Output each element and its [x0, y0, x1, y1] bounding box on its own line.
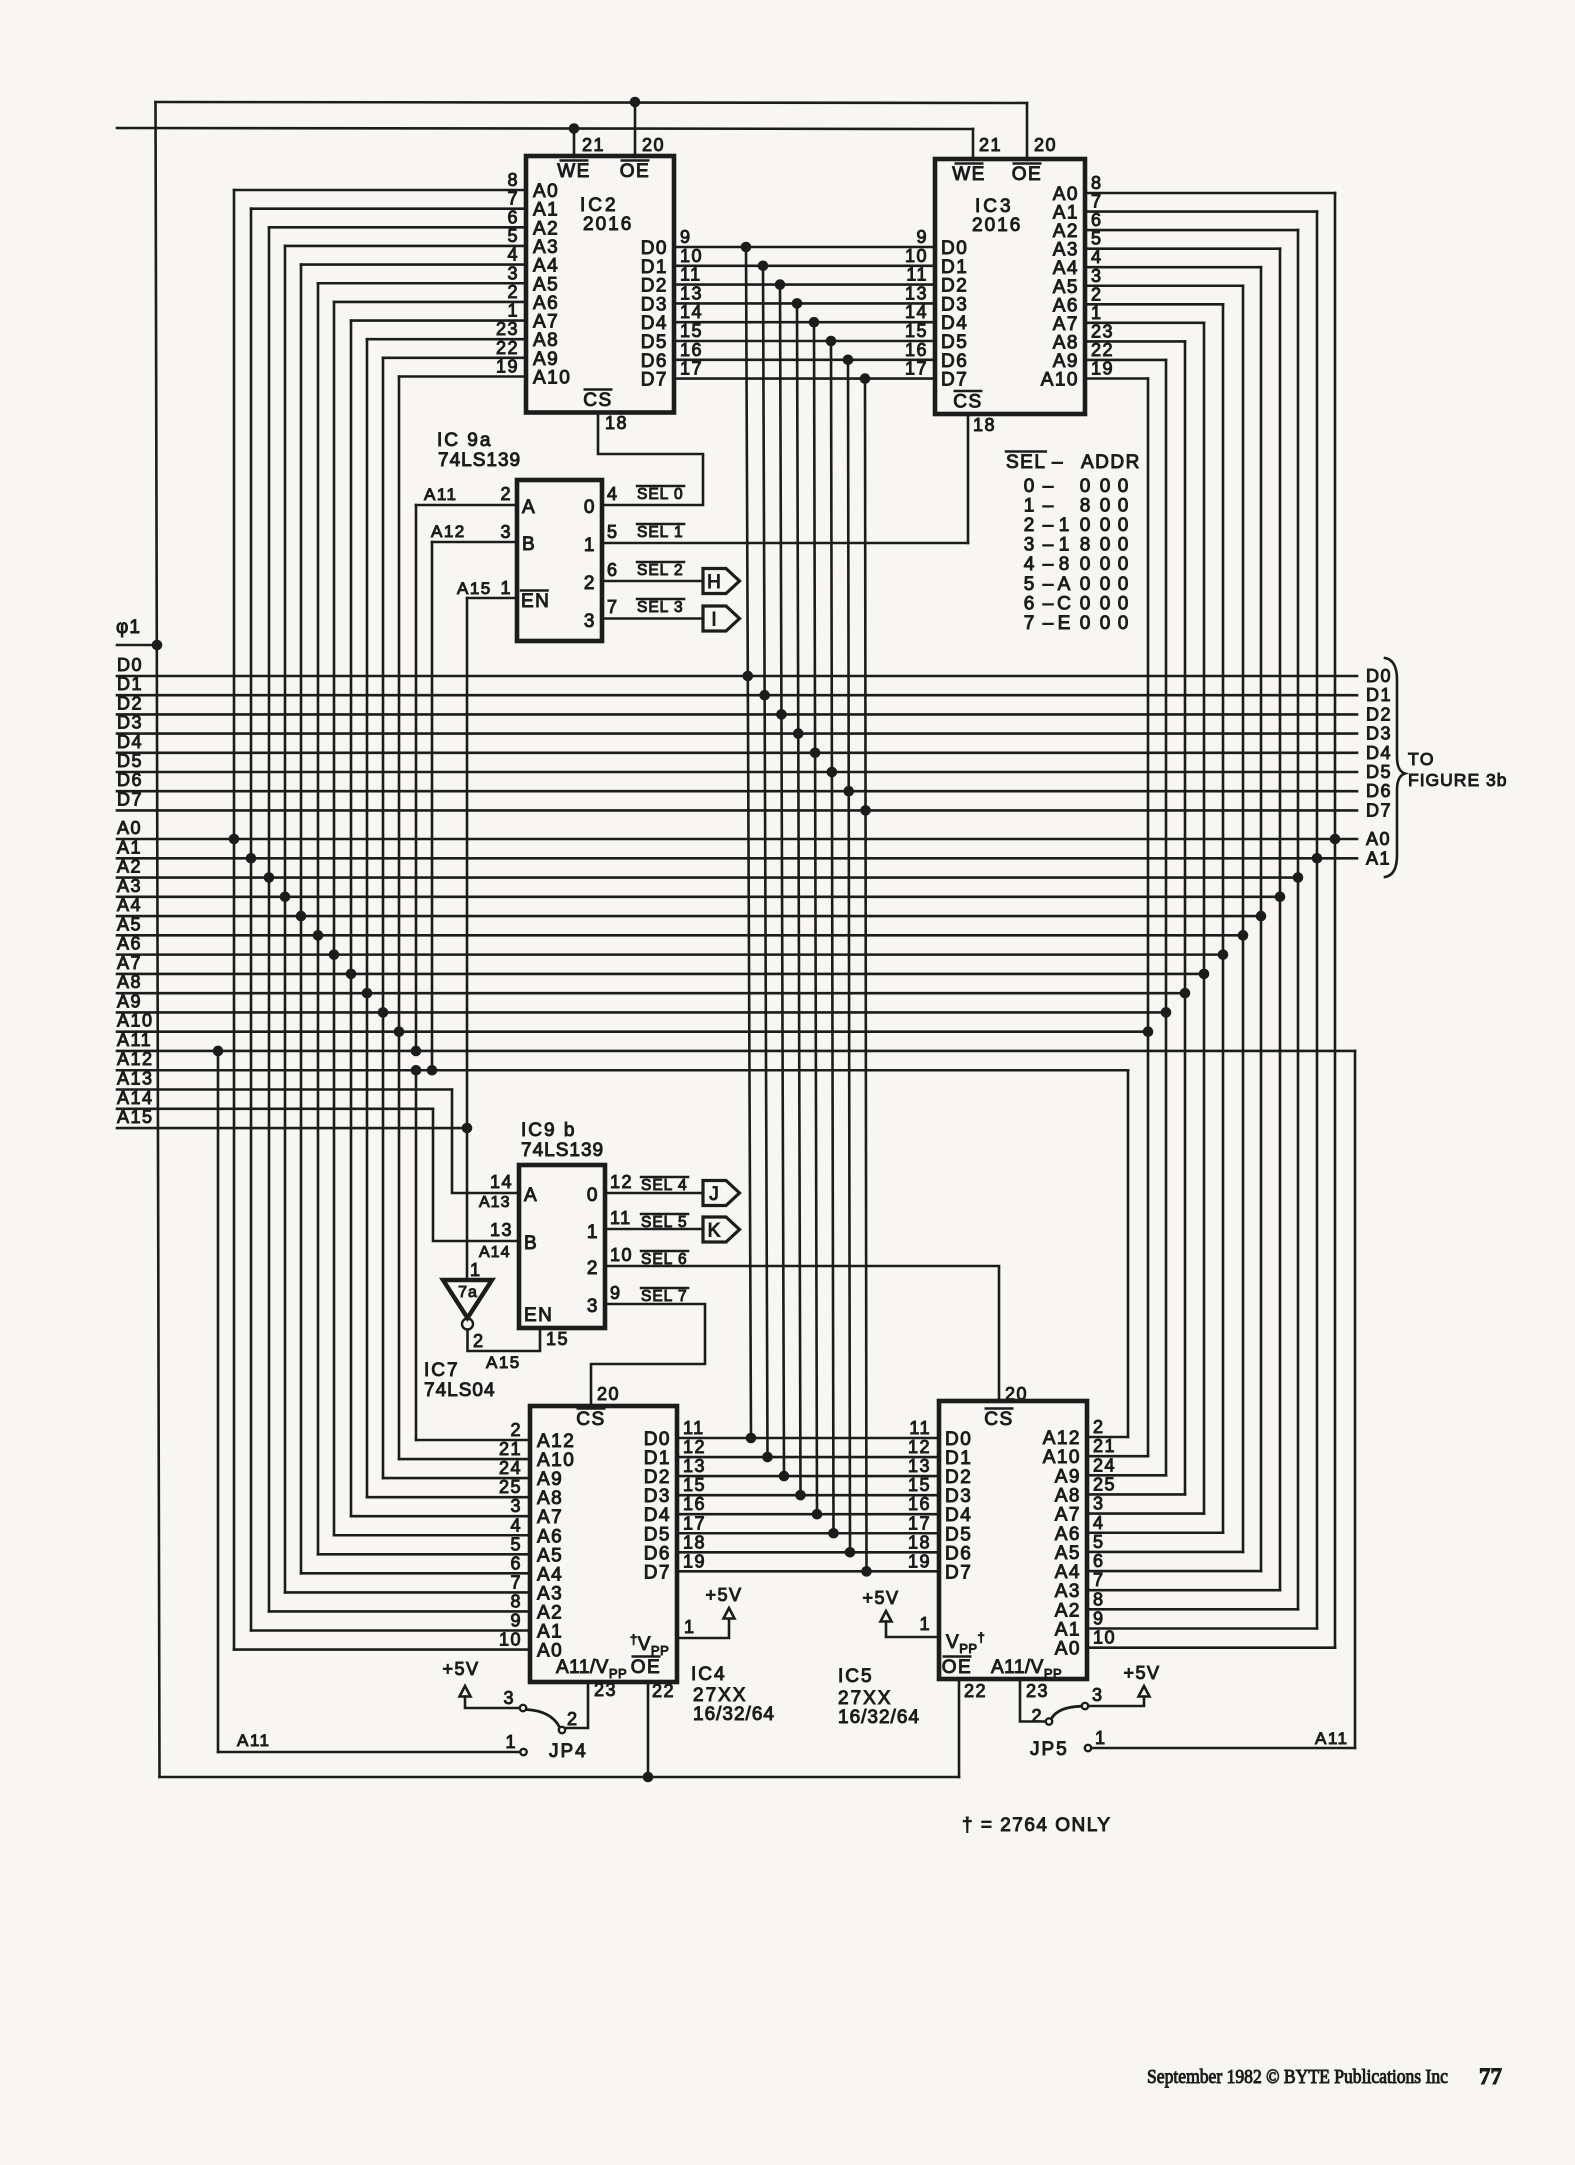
- wire IC4 A12 pin stub: [416, 1439, 530, 1442]
- svg-text:4: 4: [1093, 1513, 1105, 1533]
- junction D3 lower: [795, 1490, 806, 1501]
- svg-text:8: 8: [507, 170, 519, 190]
- wire A10 vertical IC2 to IC4: [398, 377, 401, 1460]
- svg-text:12: 12: [908, 1437, 931, 1457]
- wire D4 vertical: [814, 322, 817, 1514]
- svg-text:D3: D3: [644, 1486, 671, 1507]
- svg-text:CS: CS: [576, 1409, 605, 1430]
- junction A7 bus left: [346, 969, 357, 980]
- brace to figure 3b: [1385, 658, 1405, 877]
- svg-text:D2: D2: [1366, 704, 1392, 724]
- junction A0 bus right: [1330, 834, 1341, 845]
- wire D2 between IC2 and IC3: [674, 283, 935, 286]
- wire A15 vertical through A15 bus to inverter IC7a input: [466, 598, 469, 1280]
- wire IC5 A4 pin stub: [1087, 1570, 1261, 1573]
- svg-text:18: 18: [683, 1532, 706, 1552]
- wire IC2 A10 pin stub: [399, 375, 526, 378]
- net SEL4 wire to flag J: [605, 1192, 703, 1195]
- wire D7 between IC4 and IC5: [677, 1570, 939, 1573]
- svg-text:0: 0: [1100, 515, 1111, 536]
- svg-text:14: 14: [905, 302, 928, 322]
- svg-text:3: 3: [587, 1296, 599, 1317]
- bus D7 horizontal: [117, 809, 1357, 812]
- junction A12 bus / IC4 A12: [411, 1065, 422, 1076]
- junction D1 lower: [762, 1452, 773, 1463]
- svg-text:A10: A10: [117, 1011, 154, 1031]
- svg-text:A: A: [522, 497, 536, 518]
- wire D7 between IC2 and IC3: [674, 377, 935, 380]
- svg-text:27XX: 27XX: [838, 1688, 892, 1709]
- svg-text:22: 22: [1091, 340, 1114, 360]
- svg-text:+5V: +5V: [705, 1585, 742, 1605]
- svg-text:D5: D5: [644, 1524, 671, 1545]
- junction D4 lower: [812, 1509, 823, 1520]
- junction D2 bus: [776, 709, 787, 720]
- wire IC2 A8 pin stub: [367, 338, 526, 341]
- svg-text:9: 9: [1093, 1609, 1105, 1629]
- svg-text:OE: OE: [631, 1657, 661, 1678]
- svg-text:3: 3: [500, 522, 512, 542]
- bus A14 horizontal: [117, 1107, 433, 1110]
- svg-text:0: 0: [1080, 515, 1091, 536]
- svg-text:D0: D0: [945, 1429, 972, 1450]
- junction A6 bus left: [329, 949, 340, 960]
- svg-text:1: 1: [587, 1222, 599, 1243]
- bus A1 horizontal: [117, 857, 1357, 860]
- svg-text:A: A: [524, 1185, 538, 1206]
- svg-text:A11: A11: [1315, 1729, 1349, 1748]
- svg-text:17: 17: [908, 1513, 931, 1533]
- svg-text:I: I: [711, 610, 716, 631]
- svg-text:19: 19: [908, 1551, 931, 1571]
- bus A9 horizontal: [117, 1011, 1166, 1014]
- junction A8 bus left: [362, 988, 373, 999]
- svg-text:A1: A1: [537, 1622, 563, 1643]
- junction A7 bus right: [1199, 969, 1210, 980]
- svg-text:D7: D7: [641, 370, 668, 391]
- svg-text:A15: A15: [117, 1107, 154, 1127]
- junction A1 bus left: [246, 853, 257, 864]
- svg-text:D4: D4: [1366, 743, 1392, 763]
- wire A0 vertical IC3 to IC5: [1334, 193, 1337, 1648]
- wire D6 between IC2 and IC3: [674, 358, 935, 361]
- wire A8 vertical IC2 to IC4: [366, 339, 369, 1497]
- wire OE/phi1 top rail: [156, 102, 1028, 103]
- junction A11 bus / JP4: [213, 1046, 224, 1057]
- svg-text:17: 17: [905, 359, 928, 379]
- svg-text:A8: A8: [1055, 1485, 1081, 1506]
- svg-text:23: 23: [594, 1680, 617, 1700]
- svg-text:6: 6: [607, 560, 619, 580]
- svg-text:2: 2: [473, 1331, 485, 1351]
- svg-text:EN: EN: [524, 1305, 553, 1326]
- svg-text:OE: OE: [620, 161, 650, 182]
- svg-text:0: 0: [1024, 476, 1035, 497]
- svg-text:16: 16: [905, 340, 928, 360]
- svg-text:2: 2: [584, 573, 596, 594]
- wire A0 vertical IC2 to IC4: [233, 190, 236, 1650]
- wire IC2 OE stub pin 20: [634, 102, 637, 157]
- svg-text:19: 19: [1091, 359, 1114, 379]
- svg-text:15: 15: [908, 1475, 931, 1495]
- junction D3 upper: [792, 298, 803, 309]
- svg-text:77: 77: [1479, 2064, 1502, 2089]
- svg-text:1: 1: [1059, 535, 1070, 556]
- wire D1 vertical: [763, 266, 768, 1457]
- connector flag I: [703, 606, 740, 631]
- svg-text:0: 0: [587, 1185, 599, 1206]
- svg-text:6: 6: [1091, 210, 1103, 230]
- svg-text:D7: D7: [644, 1562, 671, 1583]
- svg-text:15: 15: [683, 1475, 706, 1495]
- svg-text:3: 3: [503, 1688, 515, 1708]
- svg-text:2: 2: [1031, 1706, 1043, 1726]
- svg-text:20: 20: [1005, 1384, 1028, 1404]
- junction A3 bus left: [280, 892, 291, 903]
- svg-text:24: 24: [499, 1458, 522, 1478]
- wire A5 vertical IC2 to IC4: [317, 283, 320, 1554]
- net SEL5 wire to flag K: [605, 1228, 703, 1231]
- svg-text:A0: A0: [1366, 829, 1391, 849]
- svg-text:21: 21: [979, 135, 1002, 155]
- junction D3 bus: [793, 728, 804, 739]
- wire IC5 A6 pin stub: [1087, 1531, 1223, 1534]
- wire A12 to IC9a input B: [432, 541, 517, 544]
- junction A4 bus left: [296, 911, 307, 922]
- svg-text:13: 13: [905, 283, 928, 303]
- EPROM IC5 27XX body: [939, 1401, 1087, 1679]
- junction D6 lower: [845, 1547, 856, 1558]
- wire IC4 A3 pin stub: [285, 1591, 530, 1594]
- svg-text:16/32/64: 16/32/64: [838, 1707, 920, 1728]
- bus D5 horizontal: [117, 771, 1357, 774]
- wire IC3 A0 pin stub: [1085, 192, 1335, 195]
- svg-text:A10: A10: [537, 1450, 575, 1471]
- wire IC4 A0 pin stub: [234, 1648, 530, 1651]
- svg-text:5: 5: [1024, 574, 1035, 595]
- svg-text:19: 19: [683, 1551, 706, 1571]
- wire D3 between IC4 and IC5: [677, 1494, 939, 1497]
- wire A12 vertical from IC9a-B to A12 bus: [431, 542, 434, 1070]
- svg-text:1: 1: [684, 1617, 696, 1637]
- svg-text:D6: D6: [117, 770, 143, 790]
- junction A9 bus left: [378, 1007, 389, 1018]
- svg-text:C: C: [1057, 593, 1071, 614]
- svg-text:0: 0: [1118, 593, 1129, 614]
- svg-text:20: 20: [597, 1384, 620, 1404]
- wire IC2 A4 pin stub: [301, 263, 526, 266]
- svg-text:A10: A10: [533, 368, 571, 389]
- svg-text:A6: A6: [537, 1526, 563, 1547]
- svg-text:16/32/64: 16/32/64: [693, 1704, 775, 1725]
- wire phi1 left vertical rail: [156, 102, 160, 1777]
- svg-text:20: 20: [1034, 135, 1057, 155]
- svg-text:–: –: [1043, 574, 1054, 595]
- svg-text:A15: A15: [457, 579, 492, 598]
- wire IC5 OE pin 22 to OE rail: [958, 1679, 961, 1777]
- junction D5 upper: [826, 336, 837, 347]
- svg-text:8: 8: [510, 1591, 522, 1611]
- svg-text:–: –: [1052, 452, 1064, 473]
- IC5 Vpp pin 1 to +5V: [886, 1622, 939, 1638]
- junction D5 bus: [827, 767, 838, 778]
- svg-text:OE: OE: [942, 1657, 972, 1678]
- wire A1 vertical IC2 to IC4: [250, 209, 253, 1631]
- svg-text:A5: A5: [117, 914, 142, 934]
- svg-text:2: 2: [587, 1258, 599, 1279]
- wire IC2 A9 pin stub: [383, 357, 526, 360]
- wire D2 vertical: [780, 285, 784, 1477]
- wire A9 vertical IC2 to IC4: [382, 358, 385, 1478]
- junction A10 bus right: [1143, 1026, 1154, 1037]
- bus D4 horizontal: [117, 751, 1357, 754]
- wire IC4 pin 23 to JP4 pin 2: [566, 1682, 589, 1728]
- svg-text:SEL 0: SEL 0: [637, 486, 684, 503]
- svg-text:A1: A1: [117, 837, 142, 857]
- svg-text:18: 18: [973, 415, 996, 435]
- svg-text:September 1982 © BYTE Publicat: September 1982 © BYTE Publications Inc: [1147, 2066, 1448, 2088]
- svg-text:A8: A8: [537, 1488, 563, 1509]
- wire IC4 A9 pin stub: [383, 1477, 530, 1480]
- svg-text:20: 20: [642, 135, 665, 155]
- svg-text:H: H: [707, 572, 721, 593]
- svg-text:–: –: [1043, 496, 1054, 517]
- svg-text:D2: D2: [117, 693, 143, 713]
- bus D6 horizontal: [117, 790, 1357, 793]
- svg-text:A7: A7: [117, 953, 142, 973]
- svg-text:2: 2: [507, 282, 519, 302]
- bus D3 horizontal: [117, 732, 1357, 735]
- wire A6 vertical IC3 to IC5: [1222, 304, 1225, 1532]
- svg-text:SEL 4: SEL 4: [641, 1177, 688, 1194]
- svg-text:JP4: JP4: [549, 1741, 588, 1762]
- svg-text:WE: WE: [557, 161, 591, 182]
- svg-text:A9: A9: [537, 1469, 563, 1490]
- svg-text:5: 5: [607, 522, 619, 542]
- wire +5V to JP4 pin 3: [465, 1697, 520, 1709]
- junction IC4 OE / OE bottom rail: [643, 1772, 654, 1783]
- bus A5 horizontal: [117, 934, 1243, 937]
- svg-text:22: 22: [652, 1681, 675, 1701]
- wire D3 vertical: [797, 303, 801, 1495]
- svg-text:A9: A9: [117, 991, 142, 1011]
- bus A12 horizontal: [117, 1069, 1128, 1072]
- svg-text:11: 11: [909, 1418, 931, 1438]
- wire IC5 A1 pin stub: [1087, 1627, 1317, 1630]
- wire IC4 A7 pin stub: [351, 1515, 530, 1518]
- svg-text:2: 2: [1024, 515, 1035, 536]
- wire A12 vertical to IC4 A12: [415, 1070, 418, 1440]
- wire D3 between IC2 and IC3: [674, 302, 935, 305]
- net SEL2 wire to flag H: [602, 580, 703, 583]
- svg-text:14: 14: [490, 1172, 513, 1192]
- EPROM IC4 27XX body: [530, 1406, 677, 1682]
- wire A11 vertical from IC9a-A to A11 bus: [415, 505, 418, 1051]
- svg-text:8: 8: [1059, 554, 1070, 575]
- svg-text:1: 1: [1024, 496, 1035, 517]
- svg-text:74LS139: 74LS139: [438, 450, 521, 471]
- junction A12 bus / IC9a input B: [427, 1065, 438, 1076]
- svg-text:0: 0: [1118, 574, 1129, 595]
- wire D1 between IC2 and IC3: [674, 264, 935, 267]
- jumper JP5 pin 2 pad: [1046, 1718, 1052, 1724]
- svg-text:A2: A2: [117, 857, 142, 877]
- svg-text:–: –: [1043, 554, 1054, 575]
- svg-text:13: 13: [683, 1456, 706, 1476]
- svg-text:12: 12: [610, 1172, 633, 1192]
- svg-text:A12: A12: [1043, 1428, 1081, 1449]
- svg-text:A11: A11: [117, 1030, 152, 1050]
- wire A11 bus to JP4 pin 1: [218, 1751, 520, 1754]
- junction A0 bus left: [229, 834, 240, 845]
- svg-text:A4: A4: [117, 895, 142, 915]
- junction D7 bus: [860, 805, 871, 816]
- net SEL7 wire to IC4 CS: [591, 1304, 705, 1406]
- svg-text:+5V: +5V: [442, 1659, 479, 1679]
- jumper JP4 selected arc 3-2: [527, 1710, 560, 1728]
- svg-text:φ1: φ1: [116, 617, 141, 638]
- svg-text:15: 15: [905, 321, 928, 341]
- svg-text:7a: 7a: [458, 1284, 478, 1301]
- svg-text:A7: A7: [537, 1507, 563, 1528]
- bus D1 horizontal: [117, 694, 1357, 697]
- wire IC2 A7 pin stub: [351, 319, 526, 322]
- svg-text:0: 0: [1118, 554, 1129, 575]
- wire IC2 A1 pin stub: [251, 207, 526, 210]
- wire IC2 A0 pin stub: [234, 189, 526, 192]
- wire D5 between IC4 and IC5: [677, 1532, 939, 1535]
- junction D7 upper: [860, 373, 871, 384]
- svg-text:K: K: [708, 1221, 721, 1242]
- svg-text:IC5: IC5: [838, 1666, 874, 1687]
- wire WE top rail: [117, 128, 973, 129]
- svg-text:3: 3: [507, 263, 519, 283]
- wire IC3 A2 pin stub: [1085, 229, 1298, 232]
- svg-text:A: A: [1058, 574, 1071, 595]
- bus A3 horizontal: [117, 896, 1280, 899]
- svg-text:13: 13: [680, 283, 703, 303]
- svg-text:27XX: 27XX: [693, 1685, 747, 1706]
- svg-text:A10: A10: [1043, 1447, 1081, 1468]
- svg-text:1: 1: [500, 578, 512, 598]
- svg-text:6: 6: [1024, 593, 1035, 614]
- wire IC2 A5 pin stub: [318, 282, 526, 285]
- wire A14 vertical+stub to IC9b input B: [433, 1109, 519, 1241]
- svg-text:21: 21: [582, 135, 605, 155]
- bus A8 horizontal: [117, 992, 1185, 995]
- svg-text:4: 4: [1024, 554, 1035, 575]
- svg-text:8: 8: [1091, 173, 1103, 193]
- wire IC3 A3 pin stub: [1085, 247, 1280, 250]
- svg-text:A12: A12: [431, 522, 466, 541]
- svg-text:6: 6: [1093, 1551, 1105, 1571]
- svg-text:13: 13: [490, 1220, 513, 1240]
- wire A11 to IC9a input A: [416, 504, 517, 507]
- svg-text:A4: A4: [537, 1564, 563, 1585]
- wire IC5 A3 pin stub: [1087, 1589, 1280, 1592]
- wire A11 vertical from bus to JP4: [217, 1051, 220, 1752]
- svg-text:21: 21: [499, 1439, 522, 1459]
- svg-text:A5: A5: [1055, 1543, 1081, 1564]
- wire IC3 WE stub pin 21: [972, 129, 975, 160]
- wire IC3 A5 pin stub: [1085, 284, 1243, 287]
- svg-text:23: 23: [1026, 1681, 1049, 1701]
- svg-text:12: 12: [683, 1437, 706, 1457]
- wire JP5 pin 3 to +5V: [1088, 1697, 1144, 1707]
- wire IC5 A7 pin stub: [1087, 1512, 1204, 1515]
- junction A2 bus right: [1293, 872, 1304, 883]
- wire D1 between IC4 and IC5: [677, 1456, 939, 1459]
- svg-text:D7: D7: [117, 789, 143, 809]
- junction D2 lower: [779, 1471, 790, 1482]
- inverter IC7 74LS04 gate 7a: [443, 1280, 492, 1318]
- wire A4 vertical IC3 to IC5: [1260, 267, 1263, 1571]
- wire D6 between IC4 and IC5: [677, 1551, 939, 1554]
- svg-text:5: 5: [507, 226, 519, 246]
- svg-text:A15: A15: [486, 1353, 521, 1372]
- svg-text:0: 0: [584, 497, 596, 518]
- svg-text:ADDR: ADDR: [1081, 452, 1141, 473]
- svg-text:0: 0: [1080, 574, 1091, 595]
- svg-text:–: –: [1043, 613, 1054, 634]
- svg-text:3: 3: [1024, 535, 1035, 556]
- junction A5 bus right: [1238, 930, 1249, 941]
- junction A1 bus right: [1312, 853, 1323, 864]
- svg-text:EN: EN: [521, 591, 550, 612]
- svg-text:SEL 1: SEL 1: [637, 524, 684, 541]
- svg-text:1: 1: [1095, 1728, 1107, 1748]
- svg-text:D2: D2: [945, 1467, 972, 1488]
- wire A1 vertical IC3 to IC5: [1316, 212, 1319, 1629]
- bus A4 horizontal: [117, 915, 1261, 918]
- bus D0 horizontal: [117, 675, 1357, 678]
- wire A5 vertical IC3 to IC5: [1242, 286, 1245, 1552]
- svg-text:1: 1: [1059, 515, 1070, 536]
- svg-text:7: 7: [507, 189, 519, 209]
- svg-text:A3: A3: [1055, 1581, 1081, 1602]
- wire A9 vertical IC3 to IC5: [1165, 360, 1168, 1475]
- svg-text:A14: A14: [117, 1088, 154, 1108]
- svg-text:0: 0: [1100, 613, 1111, 634]
- wire D5 vertical: [831, 341, 834, 1533]
- wire D5 between IC2 and IC3: [674, 340, 935, 343]
- svg-text:A5: A5: [537, 1545, 563, 1566]
- wire D4 between IC2 and IC3: [674, 321, 935, 324]
- wire OE bottom rail to IC4/IC5 OE: [160, 1776, 960, 1779]
- svg-text:+5V: +5V: [862, 1588, 899, 1608]
- svg-text:11: 11: [683, 1418, 705, 1438]
- svg-text:2: 2: [1093, 1417, 1105, 1437]
- svg-text:A4: A4: [1055, 1562, 1081, 1583]
- svg-text:19: 19: [496, 357, 519, 377]
- svg-text:21: 21: [1093, 1436, 1116, 1456]
- svg-text:0: 0: [1118, 515, 1129, 536]
- svg-text:B: B: [522, 534, 536, 555]
- connector flag J: [703, 1181, 740, 1206]
- wire IC5 pin 23 to JP5 pin 2: [1020, 1679, 1046, 1722]
- svg-text:24: 24: [1093, 1455, 1116, 1475]
- junction D0 lower: [746, 1433, 757, 1444]
- svg-text:SEL 2: SEL 2: [637, 562, 684, 579]
- wire IC4 A6 pin stub: [334, 1534, 530, 1537]
- bus A2 horizontal: [117, 876, 1298, 879]
- svg-text:10: 10: [610, 1245, 633, 1265]
- wire IC5 A2 pin stub: [1087, 1608, 1298, 1611]
- RAM IC2 2016 body: [526, 156, 674, 413]
- svg-text:13: 13: [908, 1456, 931, 1476]
- junction D1 bus: [759, 690, 770, 701]
- junction OE rail / IC2 pin 20: [630, 97, 641, 108]
